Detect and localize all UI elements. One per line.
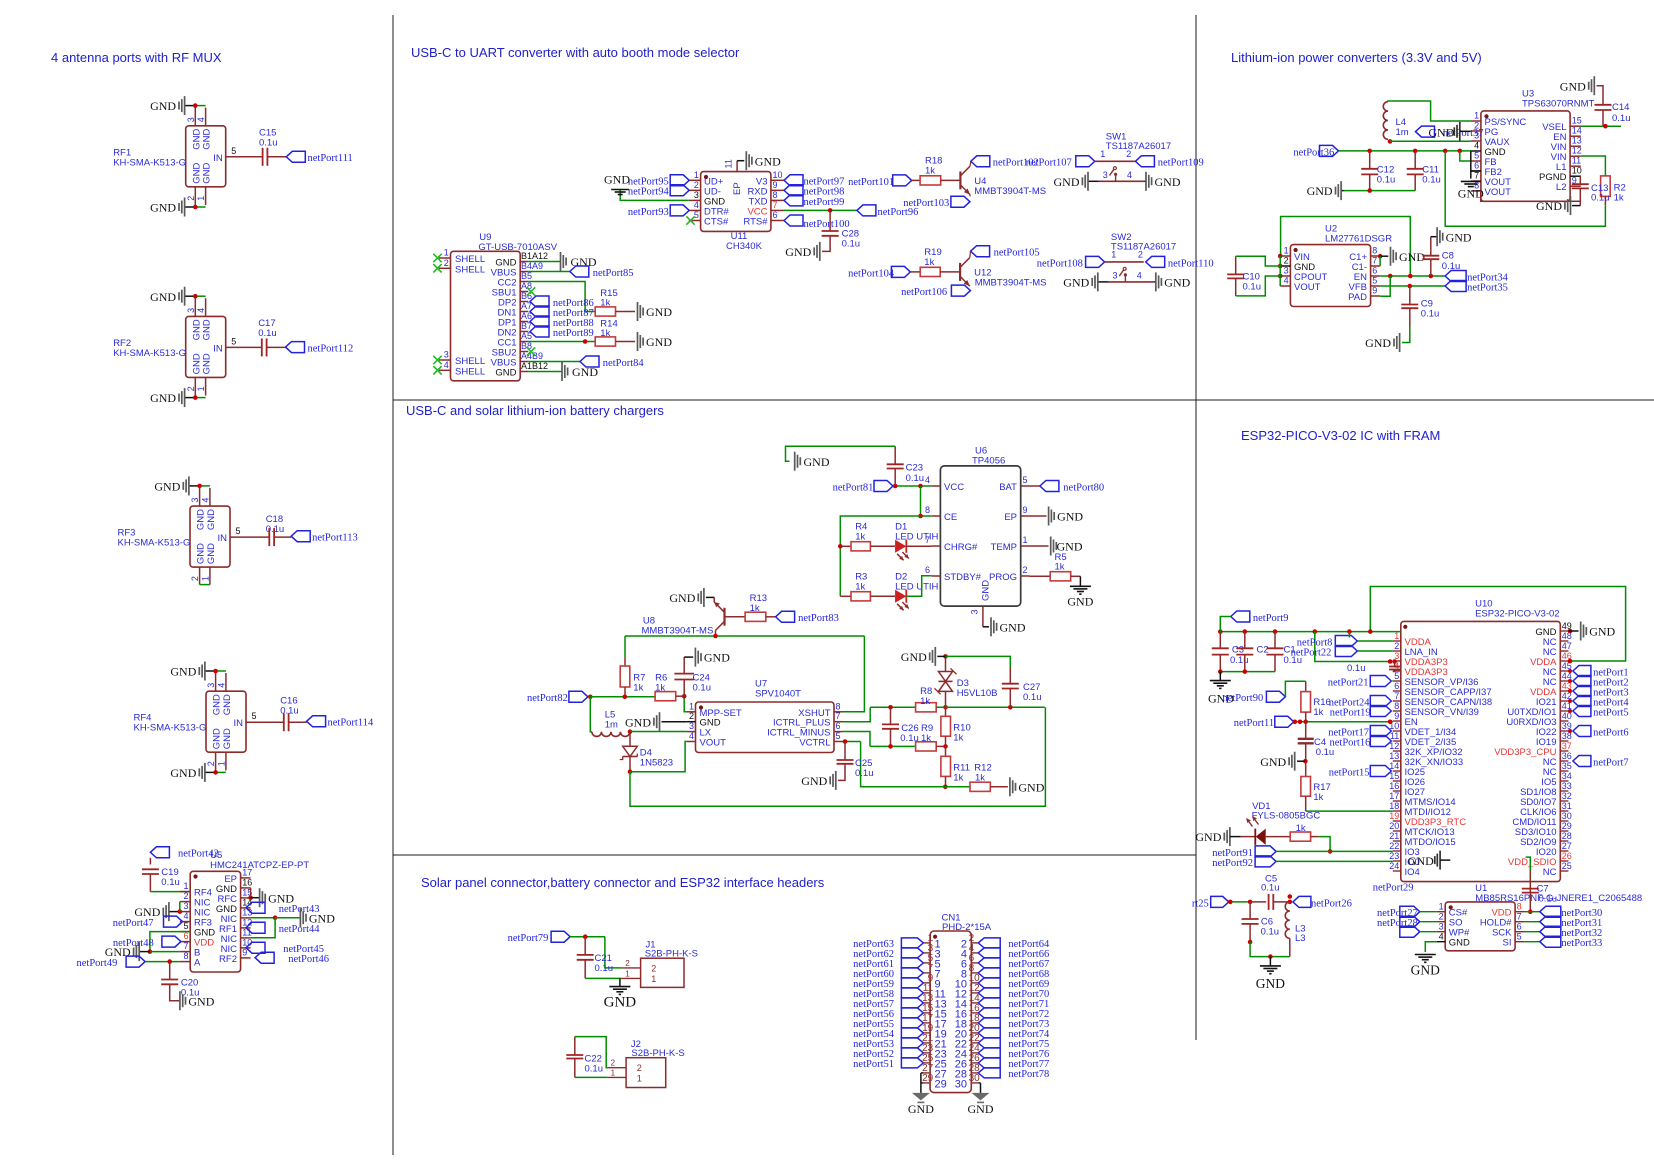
ground below C25 (829, 776, 831, 784)
svg-text:GND: GND (785, 245, 811, 259)
U10 pin 14 stub (1393, 770, 1401, 772)
U9 pin 3 SHELL stub (439, 359, 451, 361)
svg-text:12: 12 (1572, 146, 1582, 156)
svg-text:9: 9 (1023, 505, 1028, 515)
junction U2 pin2 (1278, 264, 1283, 269)
svg-text:GND: GND (901, 650, 927, 664)
ground below C4 (1288, 757, 1290, 765)
wire ICTRL_PLUS riser (843, 707, 871, 721)
svg-text:8: 8 (1372, 246, 1377, 256)
wire C22 bottom to J2 pin1 (575, 1076, 608, 1078)
resistor R3 1k (851, 592, 870, 601)
wire C21 to J1 pin1 (585, 977, 621, 979)
net port netPort45 (246, 942, 265, 953)
capacitor C3 0.1u (1219, 632, 1221, 649)
svg-text:36: 36 (1562, 751, 1572, 761)
junction R4 branch (838, 544, 843, 549)
svg-text:SI: SI (1503, 938, 1512, 949)
svg-text:IN: IN (213, 153, 223, 164)
net port netPort93 (670, 205, 689, 216)
net port netPort24 (1370, 696, 1391, 707)
junction pin13 (273, 915, 278, 920)
net port netPort67 (978, 958, 1000, 968)
svg-text:1: 1 (1474, 111, 1479, 121)
wire R3 to D2 (870, 595, 895, 597)
U6 pin 8 stub (932, 515, 941, 517)
net port netPort92 (1255, 856, 1276, 867)
net port netPort59 (901, 978, 923, 988)
svg-text:4: 4 (200, 498, 210, 503)
no-connect X U9 pin 3 (433, 356, 441, 364)
ground right of pin13 (305, 914, 307, 922)
svg-text:netPort49: netPort49 (77, 958, 118, 969)
ground above C24 (700, 653, 702, 661)
capacitor C6 0.1u (1249, 902, 1251, 919)
net port netPort56 (901, 1008, 923, 1018)
RF3 top pin 3 wire (199, 486, 201, 506)
inductor L4 1m (1383, 102, 1388, 140)
svg-text:7: 7 (773, 200, 778, 210)
net port netPort7 (1573, 756, 1591, 767)
svg-text:1: 1 (1439, 902, 1444, 912)
connector RF1 KH-SMA-K513-G (186, 126, 226, 187)
svg-text:9: 9 (1372, 286, 1377, 296)
capacitor C10 0.1u (1235, 256, 1237, 274)
switch SW2 top contact (1105, 261, 1144, 263)
ground U9 bottom right (567, 368, 569, 376)
U2 pin 7 stub (1371, 265, 1381, 267)
svg-text:1: 1 (216, 761, 226, 766)
U10 pin 4 stub (1393, 670, 1401, 672)
no-connect X U9 pin 1 (433, 254, 441, 262)
U10 pin 42 stub (1560, 700, 1568, 702)
wire R14 to ground (616, 341, 636, 343)
svg-text:3: 3 (190, 498, 200, 503)
junction row A C27 (1008, 705, 1013, 710)
svg-text:GND: GND (968, 1102, 994, 1116)
resistor R10 1k (945, 707, 947, 716)
net port netPort1 (1573, 666, 1591, 677)
no-connect X U11 CTS# (686, 216, 694, 224)
svg-text:netPort80: netPort80 (1063, 482, 1104, 493)
U1 pin 7 stub (1515, 921, 1525, 923)
U11 pin 9 stub (771, 189, 784, 191)
CN1 pin 3 stub left (923, 952, 930, 954)
net port netPort98 (784, 185, 803, 196)
net port netPort60 (901, 968, 923, 978)
svg-text:GND: GND (206, 543, 217, 564)
capacitor C25 0.1u (844, 742, 846, 761)
svg-text:L3: L3 (1295, 933, 1306, 944)
wire port to U1 pin3 (1420, 931, 1437, 933)
RF2 top pin 4 wire (205, 298, 207, 316)
svg-text:GND: GND (150, 201, 176, 215)
svg-text:GND: GND (1195, 830, 1221, 844)
svg-text:GND: GND (150, 391, 176, 405)
wire R18 to U4 base (941, 179, 961, 181)
ground at C20 (185, 997, 187, 1005)
CN1 pin 23 stub left (923, 1052, 930, 1054)
svg-text:0.1u: 0.1u (1347, 663, 1366, 674)
net port netPort4 (1573, 696, 1591, 707)
wire netPort9 to rail (1220, 617, 1231, 632)
ground SW1 right (1144, 180, 1146, 182)
svg-text:2: 2 (651, 963, 656, 973)
net port netPort71 (978, 998, 1000, 1008)
net port netPort26 (1293, 896, 1311, 907)
svg-text:5: 5 (183, 921, 188, 931)
U9 pin B8 stub (520, 351, 528, 353)
section divider horizontal upper (393, 399, 1654, 401)
wire C4 to gnd (1297, 760, 1305, 762)
svg-text:GND: GND (1018, 780, 1044, 794)
wire top gnd jumper RF2 (195, 295, 205, 297)
wire U5 pin13 to gnd (251, 917, 276, 919)
U10 pin 23 stub (1393, 860, 1401, 862)
ground left of VD1 (1223, 833, 1225, 841)
U9 pin A7 stub (520, 311, 528, 313)
svg-text:3: 3 (183, 901, 188, 911)
net port netPort78 (978, 1068, 1000, 1078)
wire rail riser to netPort8 wire (1348, 632, 1350, 638)
svg-text:netPort7: netPort7 (1593, 757, 1629, 768)
svg-text:19: 19 (1389, 811, 1399, 821)
net port netPort37 at U3 PG (1416, 126, 1435, 137)
svg-text:17: 17 (242, 867, 252, 877)
capacitor C7 0.1u (1522, 888, 1539, 890)
svg-text:netPort11: netPort11 (1234, 718, 1274, 729)
CN1 pin 28 stub right (971, 1072, 978, 1074)
U10 pin 10 stub (1393, 730, 1401, 732)
svg-text:B4A9: B4A9 (521, 261, 543, 271)
svg-text:Lithium-ion power converters (: Lithium-ion power converters (3.3V and 5… (1231, 50, 1482, 65)
svg-text:netPort93: netPort93 (628, 207, 669, 218)
U10 pin 21 stub (1393, 840, 1401, 842)
wire U9 GND A1B12 to ground (528, 371, 562, 373)
connector J2 S2B-PH-K-S box (626, 1058, 666, 1088)
ground below caps earth (1219, 672, 1221, 681)
junction RF4 top (213, 669, 218, 674)
resistor R5 1k (1050, 572, 1071, 581)
J2 pin 2 stub (608, 1067, 626, 1069)
wire U1 pin4 to gnd (1425, 942, 1436, 952)
net port netPort36 (1320, 145, 1339, 156)
U3 pin 1 stub (1471, 120, 1481, 122)
svg-text:8: 8 (183, 951, 188, 961)
wire U4 emitter stub (969, 195, 971, 197)
svg-text:9: 9 (773, 180, 778, 190)
U10 pin 39 stub (1560, 730, 1568, 732)
CN1 pin 17 stub left (923, 1022, 930, 1024)
net port netPort76 (978, 1048, 1000, 1058)
svg-text:1k: 1k (750, 603, 760, 614)
U10 pin 16 stub (1393, 790, 1401, 792)
junction U2 pin1 (1278, 254, 1283, 259)
U9 pin A5 stub (520, 341, 528, 343)
U1 pin 6 stub (1515, 931, 1525, 933)
svg-text:SPV1040T: SPV1040T (755, 689, 801, 700)
junction rail C1 (1273, 629, 1278, 634)
svg-text:KH-SMA-K513-G: KH-SMA-K513-G (134, 723, 207, 734)
ic U10 ESP32-PICO-V3-02 box (1401, 621, 1561, 881)
U3 pin 15 stub (1570, 125, 1581, 127)
junction C6 bottom (1248, 940, 1253, 945)
diode D4 1N5823 schottky (623, 746, 638, 756)
ic U3 TPS63070RNMT box (1481, 111, 1570, 201)
svg-text:GND: GND (572, 365, 598, 379)
wire netPort8 to pin1 (1357, 640, 1393, 642)
svg-text:KH-SMA-K513-G: KH-SMA-K513-G (118, 538, 191, 549)
wire U6 TEMP to gnd (1030, 545, 1049, 547)
U9 pin B1A12 stub (520, 261, 528, 263)
svg-text:7: 7 (183, 941, 188, 951)
ground CN1 right triangle (972, 1093, 990, 1101)
net port netPort30 (1540, 906, 1561, 917)
net port netPort109 (1135, 156, 1154, 167)
svg-text:2: 2 (183, 891, 188, 901)
U10 pin 15 stub (1393, 780, 1401, 782)
U9 pin 2 SHELL stub (439, 267, 451, 269)
U10 pin 31 stub (1560, 810, 1568, 812)
svg-text:1: 1 (637, 1074, 642, 1084)
wire R5 to gnd earth (1071, 575, 1081, 577)
ground CN1 left triangle (912, 1093, 930, 1101)
net port netPort110 (1146, 256, 1165, 267)
svg-text:rt25: rt25 (1192, 898, 1209, 909)
junction RF4 bottom (213, 770, 218, 775)
svg-text:5: 5 (836, 731, 841, 741)
U10 pin 12 stub (1393, 750, 1401, 752)
wire cap to port RF1 (267, 156, 286, 158)
svg-text:netPort81: netPort81 (833, 482, 874, 493)
wire netPort92 to pin23 (1276, 860, 1393, 862)
svg-text:1: 1 (1023, 535, 1028, 545)
wire VDDA big loop pin46 (1370, 587, 1625, 662)
svg-text:netPort33: netPort33 (1561, 938, 1602, 949)
switch SW1 bottom contact (1099, 180, 1145, 182)
junction RF1 bottom (193, 205, 198, 210)
svg-text:GND: GND (1307, 184, 1333, 198)
J1 pin 1 stub (621, 977, 640, 979)
svg-text:netPort94: netPort94 (628, 187, 670, 198)
ground at U5 pin 3 (169, 911, 180, 913)
wire rail to pin3 VDDA3P3 (1315, 632, 1390, 662)
svg-text:0.1u: 0.1u (259, 137, 278, 148)
resistor R4 1k (851, 542, 870, 551)
svg-text:GND: GND (1449, 938, 1470, 949)
svg-text:29: 29 (935, 1079, 947, 1091)
svg-text:GND: GND (1164, 276, 1190, 290)
svg-text:31: 31 (1562, 801, 1572, 811)
svg-text:1: 1 (689, 701, 694, 711)
junction caps bottom C2 (1243, 669, 1248, 674)
wire bottom gnd jumper RF2 (195, 397, 205, 399)
U9 pin B4A9 stub (520, 271, 528, 273)
svg-text:3: 3 (1439, 922, 1444, 932)
U2 pin 9 stub (1371, 295, 1381, 297)
junction pin3 a (1388, 659, 1393, 664)
capacitor C20 0.1u (161, 979, 178, 981)
svg-text:6: 6 (773, 210, 778, 220)
ground above C8 (1442, 233, 1444, 241)
svg-text:2: 2 (186, 196, 196, 201)
svg-text:netPort28: netPort28 (1377, 918, 1418, 929)
net port netPort48 (162, 936, 181, 947)
capacitor C24 0.1u (683, 680, 685, 697)
svg-text:8: 8 (1517, 902, 1522, 912)
svg-text:2: 2 (689, 711, 694, 721)
svg-text:1k: 1k (600, 328, 610, 339)
svg-text:PAD: PAD (1348, 292, 1367, 303)
net port netPort100 (784, 215, 803, 226)
svg-text:22: 22 (1389, 841, 1399, 851)
U5 pin 5 stub (180, 931, 190, 933)
svg-text:netPort48: netPort48 (113, 938, 154, 949)
svg-text:3: 3 (186, 308, 196, 313)
U5 pin 3 stub (180, 911, 190, 913)
svg-text:0.1u: 0.1u (1261, 927, 1280, 938)
inductor L3 (1285, 902, 1290, 938)
ground below U3 (1564, 202, 1566, 210)
svg-text:6: 6 (1372, 266, 1377, 276)
ground at U7 pin2 (653, 718, 655, 726)
wire C8 to gnd (1431, 236, 1437, 238)
svg-text:2: 2 (694, 180, 699, 190)
wire U1 HOLD net (1525, 921, 1540, 923)
net port netPort49 (126, 956, 145, 967)
svg-text:18: 18 (1389, 801, 1399, 811)
net port netPort3 (1573, 686, 1591, 697)
ground U9 top right (565, 258, 567, 266)
svg-text:GND: GND (755, 154, 781, 168)
CN1 pin 13 stub left (923, 1002, 930, 1004)
ground top RF2 (185, 295, 196, 297)
net port netPort97 (784, 175, 803, 186)
svg-text:GND: GND (154, 480, 180, 494)
svg-text:4: 4 (216, 683, 226, 688)
U10 pin 38 stub (1560, 740, 1568, 742)
wire U1 SI net (1525, 941, 1540, 943)
wire C19 to U5 pin1 (149, 874, 151, 892)
U10 pin 41 stub (1560, 710, 1568, 712)
U7 pin 4 stub (687, 741, 696, 743)
svg-text:1k: 1k (975, 772, 985, 783)
svg-text:netPort83: netPort83 (798, 613, 839, 624)
net port netPort83 (776, 611, 795, 622)
junction rail C3 (1218, 629, 1223, 634)
ground right of R15 (642, 308, 644, 316)
RF1 bottom pin 1 wire (205, 187, 207, 205)
U3 pin 4 stub (1471, 150, 1481, 152)
wire U6 BAT to netPort80 (1030, 485, 1040, 487)
wire U7 GND pin2 (662, 721, 687, 723)
ground below C28 (813, 247, 815, 255)
svg-text:2: 2 (444, 258, 449, 268)
wire row A right (936, 706, 1044, 708)
svg-text:0.1u: 0.1u (1591, 193, 1610, 204)
net port netPort99 (784, 195, 803, 206)
wire EP to gnd (737, 160, 744, 162)
svg-text:netPort105: netPort105 (994, 248, 1040, 259)
net port netPort51 (901, 1058, 923, 1068)
wire to J1 pin2 (605, 937, 621, 968)
svg-text:35: 35 (1562, 761, 1572, 771)
svg-text:netPort44: netPort44 (279, 924, 321, 935)
U11 pin 1 stub (689, 179, 701, 181)
wire top gnd jumper RF1 (195, 105, 205, 107)
svg-text:0.1u: 0.1u (1421, 309, 1440, 320)
U3 pin 13 stub (1570, 145, 1581, 147)
svg-text:4: 4 (1127, 170, 1132, 180)
net port netPort34 (1445, 271, 1466, 282)
wire top gnd jumper RF3 (200, 485, 210, 487)
esp rail top (1220, 631, 1401, 633)
svg-text:GND: GND (202, 319, 213, 340)
svg-text:C8: C8 (1442, 251, 1454, 262)
resistor R15 1k (595, 307, 615, 316)
wire U5 pin2-pin3 jumper (179, 902, 181, 912)
junction EN c (1303, 720, 1308, 725)
junction VSEL (1603, 124, 1608, 129)
svg-text:GND: GND (170, 665, 196, 679)
CN1 pin 25 stub left (923, 1062, 930, 1064)
wire netPort22 to pin2 (1357, 650, 1393, 652)
capacitor RF2 0.1u (261, 338, 263, 356)
svg-text:2: 2 (1138, 250, 1143, 260)
CN1 pin 29 stub left (923, 1082, 930, 1084)
ground SW1 left (1088, 180, 1099, 182)
net port netPort53 (901, 1038, 923, 1048)
svg-text:7: 7 (1474, 171, 1479, 181)
svg-text:16: 16 (242, 877, 252, 887)
svg-text:2: 2 (186, 386, 196, 391)
svg-text:GND: GND (801, 774, 827, 788)
svg-text:3: 3 (1113, 270, 1118, 280)
CN1 pin 7 stub left (923, 972, 930, 974)
wire bottom gnd jumper RF4 (216, 771, 226, 773)
svg-text:9: 9 (1394, 711, 1399, 721)
net port netPort73 (978, 1018, 1000, 1028)
svg-text:8: 8 (836, 701, 841, 711)
svg-text:LM27761DSGR: LM27761DSGR (1325, 233, 1392, 244)
svg-text:Solar panel connector,battery: Solar panel connector,battery connector … (421, 875, 825, 890)
CN1 pin 11 stub left (923, 992, 930, 994)
svg-text:MMBT3904T-MS: MMBT3904T-MS (975, 278, 1047, 289)
net port netPort95 (670, 175, 689, 186)
net port netPort82 (569, 691, 588, 702)
net port netPort63 (901, 938, 923, 948)
wire C28 to gnd (822, 236, 830, 252)
wire VD1 to R resistor (1266, 836, 1291, 838)
svg-text:0.1u: 0.1u (266, 524, 285, 535)
svg-text:1N5823: 1N5823 (640, 758, 673, 769)
svg-text:4 antenna ports with RF MUX: 4 antenna ports with RF MUX (51, 50, 222, 65)
svg-text:1k: 1k (855, 532, 865, 543)
svg-text:0.1u: 0.1u (1023, 692, 1042, 703)
svg-text:24: 24 (1389, 861, 1399, 871)
svg-text:GND: GND (646, 335, 672, 349)
svg-text:GND: GND (202, 353, 213, 374)
wire CN1 pins 27 29 to gnd (920, 1073, 922, 1093)
wire U2 EN net (1380, 275, 1445, 277)
wire netPort79 to J1 (570, 936, 605, 938)
wire C14 top to gnd (1597, 86, 1604, 105)
svg-text:ESP32-PICO-V3-02: ESP32-PICO-V3-02 (1475, 609, 1559, 620)
capacitor C27 0.1u (1009, 667, 1011, 684)
svg-text:EP: EP (1004, 512, 1017, 523)
wire VCC to C28 (829, 210, 831, 231)
svg-text:VOUT: VOUT (1294, 282, 1321, 293)
